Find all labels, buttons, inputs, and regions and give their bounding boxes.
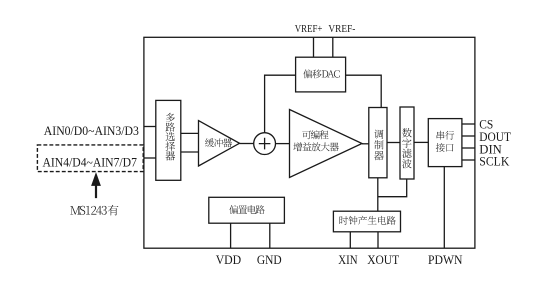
svg-text:XOUT: XOUT [367, 252, 399, 267]
wire clock branch to digital filter [378, 179, 407, 197]
annotation label MS1243有 [70, 205, 118, 216]
wire SCLK stub [462, 159, 475, 161]
pin label DOUT [479, 129, 511, 144]
pin label CS [479, 117, 493, 132]
wire GND to bias [269, 223, 271, 248]
wire mux to buffer plus [181, 132, 199, 134]
wire summer to PGA [276, 143, 290, 145]
svg-text:XIN: XIN [338, 252, 358, 267]
block clock generator U7 [333, 211, 400, 232]
pin label XOUT [367, 252, 399, 267]
wire buffer to summer [240, 143, 254, 145]
block digital filter U5 [400, 107, 414, 179]
block bias circuit U2 [209, 197, 285, 223]
label 偏移DAC [303, 69, 339, 78]
label 缓冲器 [205, 138, 232, 147]
svg-text:VREF-: VREF- [328, 24, 355, 35]
block modulator U4 [369, 108, 387, 178]
svg-text:SCLK: SCLK [479, 154, 510, 169]
wire VREF- to offset DAC [332, 37, 334, 57]
pin label VDD [216, 252, 242, 267]
pin label XIN [338, 252, 358, 267]
wire VREF+ to offset DAC [313, 37, 315, 57]
svg-text:VDD: VDD [216, 252, 242, 267]
wire offset DAC left to summer [265, 75, 296, 133]
pin label VREF+ [295, 24, 323, 35]
pin label VREF- [328, 24, 355, 35]
summing junction node [254, 133, 276, 155]
wire clock to modulator [377, 178, 379, 211]
block offset DAC U3 [296, 57, 346, 92]
label 多路选择器 [166, 113, 176, 161]
op-amp buffer A1 [199, 121, 240, 166]
pin label SCLK [479, 154, 510, 169]
wire DOUT stub [462, 135, 475, 137]
wire serial interface to PDWN pin [443, 167, 445, 249]
wire AIN4 to mux [144, 157, 156, 159]
label 增益放大器 [293, 142, 338, 151]
wire DIN stub [462, 147, 475, 149]
svg-text:PDWN: PDWN [428, 252, 463, 267]
pin label AIN4/D4~AIN7/D7 [43, 154, 138, 169]
annotation arrow to AIN4 box [91, 172, 101, 198]
label 可编程 [302, 130, 328, 139]
label 时钟产生电路 [340, 216, 396, 225]
chip boundary box [144, 37, 475, 248]
pin label PDWN [428, 252, 463, 267]
wire CS stub [462, 123, 475, 125]
wire digital filter to serial interface [414, 141, 428, 143]
dashed option box AIN4-AIN7 [37, 145, 143, 172]
wire mux to buffer minus [181, 151, 199, 153]
wire PGA to modulator [362, 143, 369, 145]
label 数字滤波 [402, 128, 412, 168]
wire XOUT to clock [377, 232, 379, 248]
wire AIN0 to mux [144, 126, 156, 128]
svg-text:GND: GND [257, 252, 282, 267]
wire offset DAC right to modulator [346, 75, 382, 107]
wire modulator to digital filter [387, 142, 400, 144]
pin label GND [257, 252, 282, 267]
svg-text:AIN0/D0~AIN3/D3: AIN0/D0~AIN3/D3 [44, 123, 139, 138]
label 调制器 [374, 130, 384, 161]
label 接口 [436, 143, 454, 152]
pin label DIN [479, 141, 502, 156]
label 串行 [437, 131, 455, 140]
block multiplexer U1 [156, 100, 181, 180]
svg-text:VREF+: VREF+ [295, 24, 323, 35]
block serial interface U6 [428, 119, 462, 167]
wire VDD to bias [230, 223, 232, 248]
pin label AIN0/D0~AIN3/D3 [44, 123, 139, 138]
label 偏置电路 [229, 205, 264, 214]
wire XIN to clock [349, 232, 351, 248]
op-amp PGA A2 [290, 110, 363, 178]
svg-text:AIN4/D4~AIN7/D7: AIN4/D4~AIN7/D7 [43, 154, 138, 169]
